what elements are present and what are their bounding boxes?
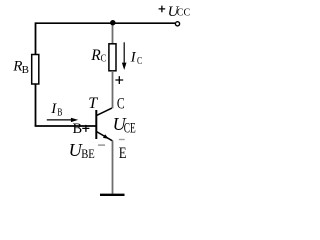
transistor T emitter lead: [96, 132, 112, 141]
wire base horizontal: [35, 125, 96, 127]
transistor T base bar: [95, 110, 97, 139]
minus sign of UBE: [98, 144, 105, 146]
svg-text:E: E: [119, 145, 127, 162]
ground bar: [100, 194, 125, 196]
svg-text:B: B: [57, 108, 62, 119]
wire left vertical lower (RB to base): [35, 84, 37, 126]
minus sign of UCE: [119, 139, 125, 141]
resistor RC: [109, 44, 116, 71]
svg-text:CE: CE: [124, 120, 136, 136]
svg-text:C: C: [117, 95, 125, 112]
svg-text:I: I: [130, 50, 137, 66]
plus sign of UCE: [115, 76, 123, 84]
current arrow IB: [47, 119, 71, 121]
wire collector vertical (RC to transistor): [112, 71, 114, 109]
svg-text:BE: BE: [81, 146, 95, 161]
transistor T emitter arrowhead: [103, 134, 109, 139]
plus sign of UBE: [82, 125, 89, 132]
svg-text:C: C: [137, 56, 142, 67]
svg-text:B: B: [22, 64, 29, 76]
label +Ucc plus sign: [159, 6, 166, 13]
transistor T collector lead: [96, 108, 112, 116]
resistor RB: [32, 55, 39, 85]
svg-text:B: B: [73, 121, 83, 137]
junction dot on supply rail: [110, 20, 115, 25]
wire emitter vertical: [112, 141, 114, 194]
open terminal circle +Ucc: [175, 22, 179, 26]
current arrow IC: [123, 42, 125, 62]
svg-text:CC: CC: [177, 7, 190, 19]
wire top supply rail: [36, 22, 176, 24]
svg-text:T: T: [88, 95, 98, 112]
wire left vertical upper (rail to RB): [35, 22, 37, 54]
wire RC branch upper (rail to RC): [112, 23, 114, 44]
svg-text:C: C: [101, 53, 107, 65]
